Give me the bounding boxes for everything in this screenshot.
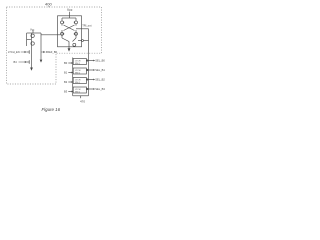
svg-text:B3: B3 <box>64 90 68 94</box>
svg-text:B2: B2 <box>64 80 68 84</box>
svg-text:EN Q: EN Q <box>75 91 80 93</box>
svg-text:B0: B0 <box>64 61 68 65</box>
svg-text:470: 470 <box>80 99 85 103</box>
svg-text:SEL_B3: SEL_B3 <box>95 87 105 91</box>
svg-text:EN Q: EN Q <box>75 72 80 74</box>
svg-text:EN Q: EN Q <box>75 63 80 65</box>
svg-text:LTCH_EN: LTCH_EN <box>8 50 20 54</box>
svg-text:EN Q: EN Q <box>75 82 80 84</box>
svg-text:Vcc: Vcc <box>30 27 35 31</box>
svg-text:B1: B1 <box>64 71 68 75</box>
svg-text:Figure 16: Figure 16 <box>42 107 61 112</box>
svg-text:TRI_out: TRI_out <box>82 24 92 28</box>
svg-text:#REF_B0: #REF_B0 <box>46 50 58 54</box>
svg-text:SEL_B2: SEL_B2 <box>95 78 105 82</box>
svg-text:SEL_B1: SEL_B1 <box>95 68 105 72</box>
svg-text:B4: B4 <box>14 60 18 64</box>
svg-text:SEL_B0: SEL_B0 <box>95 59 105 63</box>
svg-text:400: 400 <box>45 2 52 7</box>
svg-text:Vcc: Vcc <box>67 8 73 12</box>
